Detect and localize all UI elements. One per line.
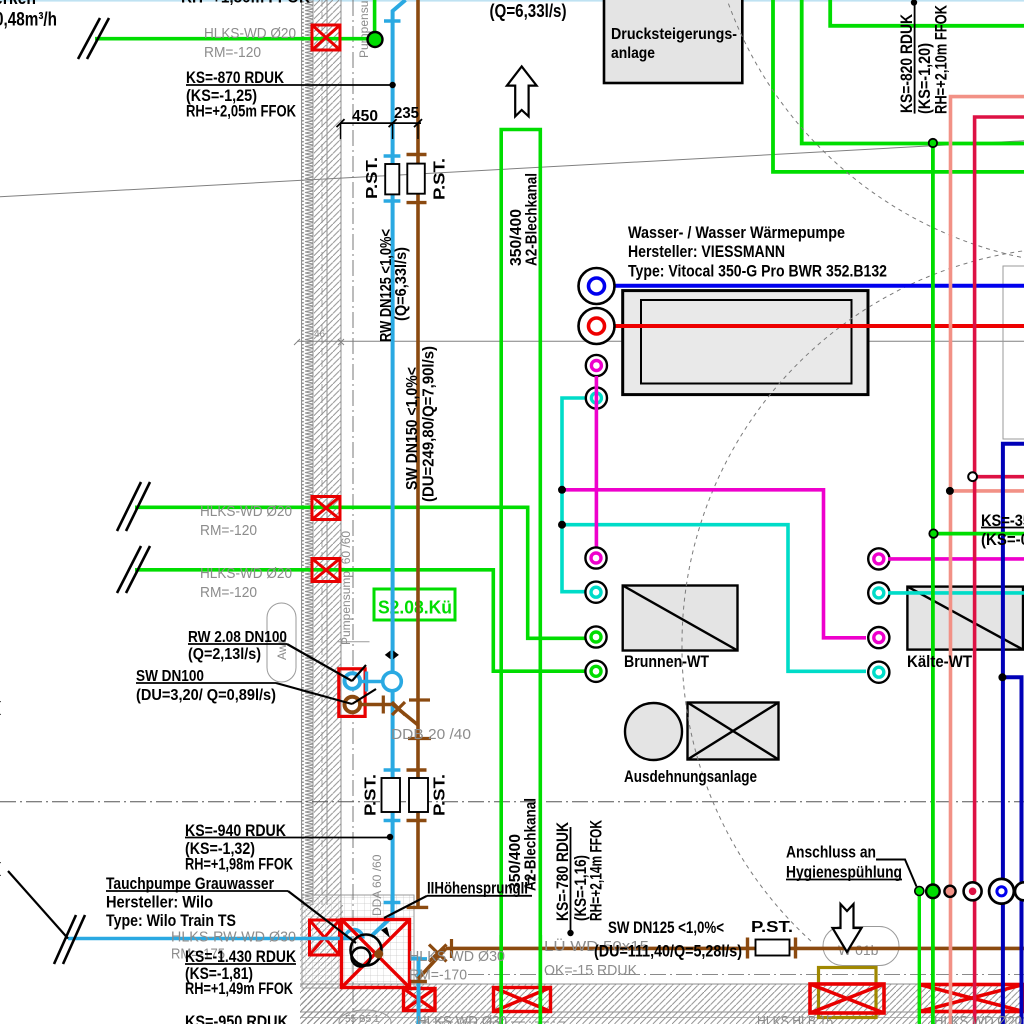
svg-text:P.ST.: P.ST.	[751, 919, 793, 936]
pipe HLKS-WD green 1 top	[95, 37, 369, 41]
svg-text:KS=-950 RDUK: KS=-950 RDUK	[185, 1013, 288, 1024]
crimson circle	[964, 882, 982, 900]
red connection circle	[579, 308, 615, 344]
pump outlet cyan down	[409, 959, 427, 1024]
sleeve bottom duct	[494, 988, 551, 1012]
svg-text:55 B5 1: 55 B5 1	[345, 1014, 380, 1024]
svg-text:Brunnen-WT: Brunnen-WT	[624, 653, 709, 671]
blue circle	[989, 879, 1014, 904]
duct A2-Blechkanal green lines	[501, 130, 540, 1024]
flow arrow at pump	[381, 927, 390, 938]
green riser top-right b	[802, 0, 1024, 144]
Kälte magenta ring 1	[868, 548, 889, 569]
sleeve RW/SW double	[339, 669, 365, 717]
pipe navy L	[1003, 444, 1024, 1024]
label KS=-870 block	[186, 69, 396, 121]
blue connection circle	[579, 268, 615, 304]
pipe HLKS-WD green 2	[135, 507, 586, 638]
svg-text:Type: Vitocal 350-G Pro BWR 35: Type: Vitocal 350-G Pro BWR 352.B132	[628, 263, 887, 281]
pipe HLKS-RW-WD horizontal	[68, 937, 352, 941]
pump brown dot	[374, 950, 383, 959]
pipe break symbol green1	[78, 18, 109, 59]
svg-text:KS=-780 RDUK: KS=-780 RDUK	[554, 822, 572, 921]
edge circle	[1015, 882, 1024, 900]
pump circles	[351, 935, 382, 966]
svg-text:RM=-120: RM=-120	[204, 44, 261, 61]
svg-text:P.ST.: P.ST.	[432, 158, 449, 200]
olive duct box	[819, 968, 877, 1018]
svg-text:P.ST.: P.ST.	[432, 774, 449, 816]
RW sleeve circle	[345, 673, 361, 689]
building axis dash-dot vertical	[352, 0, 354, 1024]
sleeve green3	[312, 559, 340, 582]
W01b stadium	[823, 927, 899, 966]
salmon branch	[950, 489, 1024, 493]
svg-text:HLKS-WD Ø20: HLKS-WD Ø20	[200, 503, 292, 520]
P.ST. symbol RW bottom	[382, 778, 401, 812]
green riser top-right c	[830, 0, 1024, 26]
svg-text:HLKS WD Ø20: HLKS WD Ø20	[934, 1013, 1022, 1024]
label KS=-35 cut right	[981, 512, 1024, 549]
svg-text:DDA 60 /60: DDA 60 /60	[370, 854, 384, 916]
green riser at dot	[373, 0, 377, 40]
svg-text:RH=+2,14m FFOK: RH=+2,14m FFOK	[588, 820, 606, 921]
svg-text:SW DN150 <1,0%<: SW DN150 <1,0%<	[404, 367, 421, 490]
label Tauchpumpe block	[106, 875, 356, 943]
svg-text:RH=+2,05m FFOK: RH=+2,05m FFOK	[186, 103, 296, 121]
label SW DN100	[136, 668, 376, 704]
svg-text:RH=+1,49m FFOK: RH=+1,49m FFOK	[185, 980, 293, 998]
svg-text:erken: erken	[0, 0, 36, 8]
junction dots turquoise	[558, 486, 566, 494]
gray outline rect right	[1003, 266, 1024, 439]
label Höhensprung	[384, 878, 535, 918]
SW branch fitting	[361, 696, 418, 726]
dashed well arc B	[682, 250, 1024, 942]
SW sleeve circle	[345, 697, 361, 713]
Ausdehnung crossed box	[688, 703, 779, 760]
label Anschluss an Hygienespühlung	[786, 844, 917, 887]
salmon filled circle	[944, 886, 955, 897]
sleeve green1	[312, 25, 340, 50]
svg-text:(DU=249,80/Q=7,90l/s): (DU=249,80/Q=7,90l/s)	[421, 346, 438, 502]
pipe magenta brine	[595, 376, 599, 547]
gray bottom ellipse fragment	[339, 1010, 391, 1024]
bottom wall band	[300, 905, 1024, 1024]
Kälte turquoise ring 2	[868, 662, 889, 683]
svg-text:RH=+1,50m FFOK: RH=+1,50m FFOK	[181, 0, 310, 7]
green filled circle	[926, 885, 940, 899]
label RW 2.08 DN100	[188, 629, 366, 681]
svg-text:DDB 20 /40: DDB 20 /40	[391, 726, 471, 743]
P.ST. symbol SW main	[756, 940, 790, 956]
sleeve pump inlet	[310, 920, 340, 955]
pipe break symbol green2	[117, 482, 150, 531]
black leader into HLKS-RW	[8, 871, 68, 939]
pipe turquoise from pump ring	[562, 398, 585, 592]
svg-text:350/400: 350/400	[508, 209, 525, 266]
pipe SW DN125 main horizontal	[408, 938, 1024, 982]
thin gray horizontal line y341	[297, 340, 1024, 342]
RW bend into pump	[371, 916, 393, 937]
Drucksteigerungsanlage box	[604, 0, 742, 83]
heat pump outer	[623, 291, 868, 395]
pipe HLKS-WD green 3	[135, 570, 586, 671]
small green ring	[915, 887, 924, 896]
Kälte-WT box	[907, 587, 1023, 650]
svg-text:(KS=-1,20): (KS=-1,20)	[916, 43, 934, 114]
up arrow	[507, 66, 537, 116]
svg-text:SW DN125 <1,0%<: SW DN125 <1,0%<	[608, 919, 724, 937]
svg-text:RM=-120: RM=-120	[200, 584, 257, 601]
sleeve bottom cyan	[404, 989, 436, 1011]
axis dash-dot horizontal bottom partial	[468, 974, 1024, 976]
green branch KS-35	[934, 532, 1024, 536]
sleeve bottom olive	[810, 984, 884, 1013]
svg-text:Kälte-WT: Kälte-WT	[907, 653, 972, 671]
Kälte magenta ring 2	[868, 627, 889, 648]
Brunnen magenta ring	[585, 547, 606, 568]
RW crossing arc in pump	[345, 930, 363, 939]
svg-text:235: 235	[394, 105, 419, 122]
hygiene green drop	[918, 891, 921, 1024]
Tauchpumpe red box	[342, 920, 410, 988]
svg-text:(Q=6,33l/s): (Q=6,33l/s)	[393, 247, 410, 321]
svg-text:OK=-15 RDUK: OK=-15 RDUK	[544, 962, 637, 979]
green dot node	[368, 32, 383, 47]
duct green overlay over brown	[499, 935, 503, 1024]
svg-text:(KS=-0: (KS=-0	[981, 531, 1024, 549]
green node ring top	[929, 139, 937, 147]
P.ST. symbol SW top	[407, 164, 425, 194]
green vertical drop x933	[931, 144, 935, 1024]
Ausdehnung circle	[625, 703, 682, 760]
svg-text:A2-Blechkanal: A2-Blechkanal	[524, 173, 541, 266]
svg-text:anlage: anlage	[611, 45, 655, 62]
S2.08.Kü room label box	[374, 589, 455, 620]
Brunnen green ring 1	[585, 626, 606, 647]
green riser top-right a	[773, 0, 1024, 172]
svg-text:Ausdehnungsanlage: Ausdehnungsanlage	[624, 768, 757, 786]
svg-text:(Q=2,13l/s): (Q=2,13l/s)	[188, 646, 261, 663]
green node ring mid	[929, 529, 937, 537]
pipe blue flow	[600, 284, 1024, 288]
rotated label KS=-780	[554, 820, 606, 936]
svg-text:46: 46	[314, 329, 326, 340]
viewport top edge tint	[0, 0, 1024, 2]
rotated label KS=-820	[898, 0, 951, 114]
flow diamond on RW	[385, 651, 399, 660]
navy branch	[1003, 677, 1022, 1024]
axis dash-dot horizontal mid	[0, 801, 1024, 803]
pipe break on HLKS-RW	[54, 915, 85, 964]
heat pump inner	[641, 300, 852, 384]
svg-text:Drucksteigerungs-: Drucksteigerungs-	[611, 26, 737, 43]
svg-text:450: 450	[352, 108, 378, 125]
P.ST. symbol SW bottom	[409, 778, 428, 812]
crimson branch	[973, 475, 1024, 479]
svg-text:HLKS HLB 15: HLKS HLB 15	[757, 1013, 833, 1024]
svg-text:(: (	[0, 860, 1, 877]
svg-text:HLKS-RW-WD Ø30: HLKS-RW-WD Ø30	[171, 929, 296, 946]
svg-text:P.ST.: P.ST.	[364, 157, 381, 199]
svg-text:A2-Blechkanal: A2-Blechkanal	[523, 798, 540, 891]
svg-text:RH=+2,10m FFOK: RH=+2,10m FFOK	[933, 5, 951, 114]
down arrow	[833, 904, 862, 952]
svg-text:P.ST.: P.ST.	[363, 774, 380, 816]
svg-text:S2.08.Kü: S2.08.Kü	[378, 598, 452, 618]
label KS=-1.430 block	[185, 948, 296, 998]
pipe red return	[600, 324, 1024, 328]
svg-text:(DU=111,40/Q=5,28l/s): (DU=111,40/Q=5,28l/s)	[594, 943, 742, 961]
svg-text:Pumpensumpf 60/60: Pumpensumpf 60/60	[357, 0, 371, 58]
dashed well arc A	[704, 0, 1024, 266]
magenta pump ring	[586, 355, 607, 376]
pipe turquoise Kälte out	[888, 591, 1024, 595]
dimension 450/235	[337, 105, 423, 139]
svg-text:Pumpensumpf 60 /60: Pumpensumpf 60 /60	[339, 531, 353, 645]
svg-text:Anschluss an: Anschluss an	[786, 844, 876, 862]
Brunnen-WT box	[623, 586, 738, 651]
svg-text:Hersteller: VIESSMANN: Hersteller: VIESSMANN	[628, 243, 785, 261]
svg-text:(DU=3,20/ Q=0,89l/s): (DU=3,20/ Q=0,89l/s)	[136, 687, 276, 704]
pipe salmon	[951, 97, 1024, 1024]
svg-text:(: (	[0, 699, 1, 716]
svg-text:Wasser- / Wasser Wärmepumpe: Wasser- / Wasser Wärmepumpe	[628, 224, 845, 242]
svg-text:RM=-120: RM=-120	[200, 522, 257, 539]
RW branch open ring	[383, 672, 402, 691]
pipe magenta to Kälte	[562, 490, 866, 638]
bottom edge dash fragment	[415, 1021, 565, 1023]
svg-text:Hersteller: Wilo: Hersteller: Wilo	[106, 894, 213, 912]
thin gray slanted line	[0, 141, 1024, 197]
pump sump pit grid	[302, 895, 414, 988]
pipe crimson	[975, 117, 1024, 1024]
gray ledge line	[338, 641, 370, 643]
svg-text:(Q=6,33l/s): (Q=6,33l/s)	[490, 1, 567, 21]
Aw stadium	[267, 603, 296, 682]
Brunnen green ring 2	[585, 661, 606, 682]
RW tee to sleeve	[361, 672, 383, 692]
svg-text:KS=-820 RDUK: KS=-820 RDUK	[898, 14, 916, 113]
Brunnen turquoise ring	[585, 582, 606, 603]
P.ST. symbol RW top	[385, 164, 399, 194]
turquoise pump ring	[586, 387, 607, 408]
svg-text:0,48m³/h: 0,48m³/h	[0, 10, 57, 31]
svg-text:RM=-170: RM=-170	[409, 967, 467, 984]
pipe SW DN150 vertical	[407, 0, 432, 907]
svg-text:HLKS-WD Ø20: HLKS-WD Ø20	[200, 565, 292, 582]
rotated label 350/400 A2-Blechkanal bottom	[507, 798, 540, 891]
svg-text:HLKS-WD Ø20: HLKS-WD Ø20	[204, 25, 296, 42]
svg-text:Type: Wilo Train TS: Type: Wilo Train TS	[106, 912, 236, 930]
pipe magenta Kälte out	[888, 557, 1024, 561]
pipe RW DN125 vertical	[384, 0, 406, 918]
svg-text:HLKS WD Ø30: HLKS WD Ø30	[409, 948, 505, 965]
sleeve bottom right wide	[920, 985, 1024, 1012]
rotated label 350/400 A2-Blechkanal top	[508, 173, 541, 266]
pipe turquoise to Kälte	[562, 525, 866, 672]
svg-text:HLKS WD Ø30: HLKS WD Ø30	[417, 1013, 507, 1024]
svg-text:350/400: 350/400	[507, 834, 524, 891]
Kälte turquoise ring 1	[868, 582, 889, 603]
wall vertical band	[302, 0, 342, 919]
label KS=-940 block	[185, 822, 393, 874]
pipe break symbol green3	[117, 546, 150, 593]
sleeve green2	[312, 497, 340, 520]
svg-text:RH=+1,98m FFOK: RH=+1,98m FFOK	[185, 856, 293, 874]
